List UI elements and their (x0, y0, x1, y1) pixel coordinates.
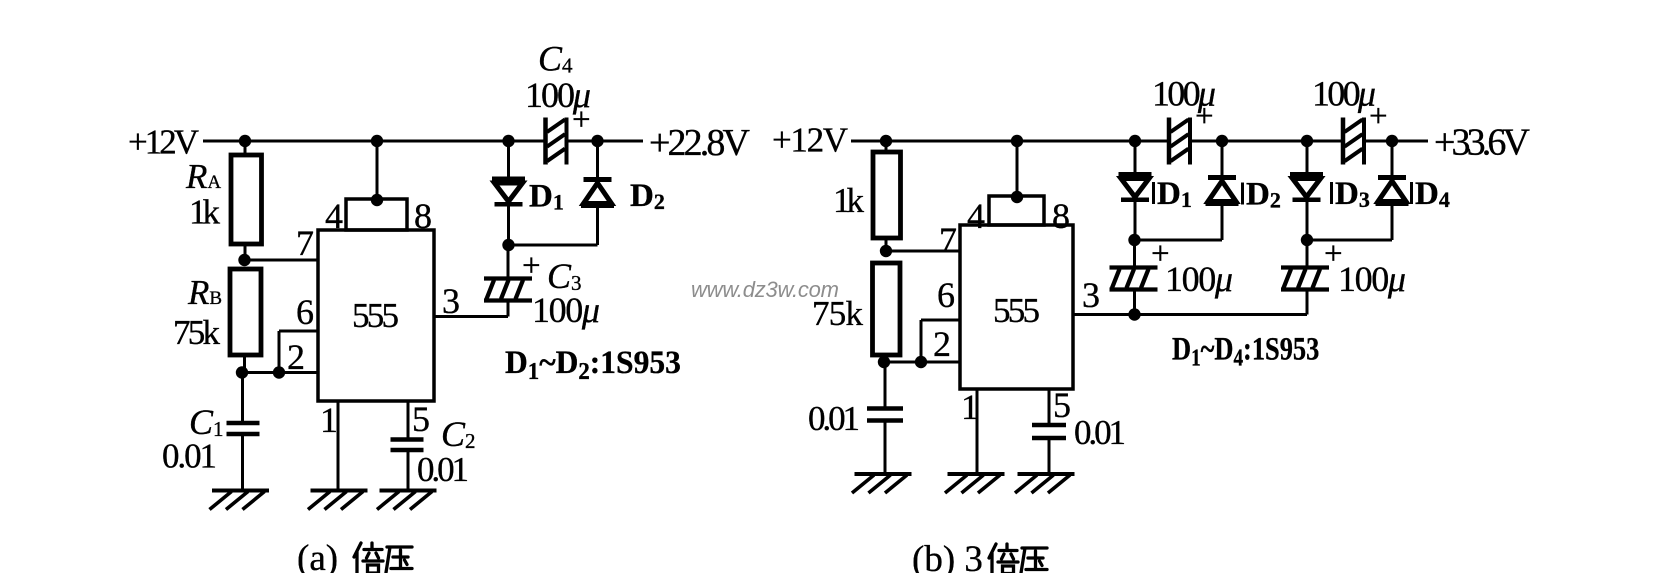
junction pin2/pin6 branch (273, 366, 285, 378)
capacitor 0.01 at pins2/6 (b) (867, 362, 903, 474)
svg-text:7: 7 (296, 223, 314, 263)
wire pin 1 to ground (b) (976, 389, 979, 474)
junction D3/C8 (b) (1301, 234, 1313, 246)
junction rail/RA (239, 135, 251, 147)
diode D1 (a) (492, 141, 525, 245)
svg-text:555: 555 (993, 291, 1040, 330)
wire pin 3 output (a) (434, 301, 508, 317)
label D3 (b) (1330, 176, 1370, 212)
svg-text:100μ: 100μ (1338, 259, 1406, 299)
diode D3 (b) (1290, 141, 1323, 240)
svg-text:(a): (a) (297, 538, 338, 573)
wire D1 cathode to D2 anode (b) (1135, 239, 1222, 242)
resistor 1k (b) (873, 141, 901, 251)
junction pin2/pin6 branch (b) (915, 356, 927, 368)
svg-text:555: 555 (352, 296, 399, 335)
svg-text:1: 1 (320, 400, 338, 440)
svg-text:100μ: 100μ (1165, 259, 1233, 299)
svg-text:+33.6V: +33.6V (1434, 122, 1531, 164)
wire rail to pins 4/8 (b) (1016, 141, 1019, 196)
diode D2 (b) (1206, 141, 1239, 240)
svg-text:+12V: +12V (772, 121, 848, 160)
resistor 75k (b) (873, 263, 901, 362)
capacitor C3 100u (pump cap a) (484, 279, 532, 301)
svg-text:8: 8 (414, 196, 432, 236)
wire pin 6 (279, 330, 318, 333)
diode D1 (b) (1119, 141, 1152, 240)
junction C7 right/D4 cathode/output (b) (1386, 135, 1398, 147)
wire C3 to D1/D2 junction (507, 245, 510, 278)
capacitor C8 100u (pump cap 2 b) (1281, 240, 1329, 315)
junction pin3/C6 (b) (1128, 308, 1140, 320)
junction C5 right/D2 cathode (b) (1216, 135, 1228, 147)
svg-text:+12V: +12V (128, 123, 199, 162)
wire pin 7 (b) (886, 250, 960, 253)
svg-text:75k: 75k (173, 313, 221, 352)
capacitor C4 100u (output cap a) (546, 118, 567, 165)
junction rail/pin8-4 (371, 135, 383, 147)
ground under pin 1 (b) (945, 474, 1005, 493)
junction rail/R1k (b) (880, 135, 892, 147)
wire pin 7 (245, 259, 319, 262)
ground under 0.01 cap (b) (852, 474, 912, 493)
junction RA/RB/pin7 (238, 254, 250, 266)
svg-text:+: + (522, 248, 541, 284)
junction C4 right/D2 cathode/output (591, 135, 603, 147)
svg-text:(b) 3: (b) 3 (912, 539, 983, 573)
timer IC 555 (b) (960, 196, 1073, 389)
svg-text:+22.8V: +22.8V (649, 122, 751, 164)
caption (b) tripler (912, 539, 1047, 573)
svg-text:3: 3 (1082, 275, 1100, 315)
capacitor C7 100u (top cap 2 b) (1343, 118, 1364, 165)
junction 75k/cap/pin2 (b) (878, 356, 890, 368)
wire pin6-pin2 link (278, 331, 281, 373)
svg-text:0.01: 0.01 (1074, 413, 1126, 452)
ground under pin1 (a) (308, 491, 368, 510)
svg-text:0.01: 0.01 (162, 437, 217, 476)
junction 1k/75k/pin7 (b) (880, 245, 892, 257)
resistor RA 1k (231, 141, 262, 260)
svg-text:100μ: 100μ (1152, 74, 1216, 114)
svg-text:5: 5 (412, 399, 430, 439)
svg-text:100μ: 100μ (525, 75, 591, 115)
svg-text:100μ: 100μ (532, 290, 600, 330)
ground under C1 (210, 491, 270, 510)
junction rail/pins4-8 (b) (1011, 135, 1023, 147)
junction rail/D1 anode, C4 left (502, 135, 514, 147)
svg-text:5: 5 (1053, 385, 1071, 425)
ground under pin 5 (b) (1015, 474, 1075, 493)
resistor RB 75k (230, 269, 261, 373)
wire D3 cathode to D4 anode (b) (1307, 239, 1392, 242)
capacitor C5 100u (top cap 1 b) (1169, 118, 1190, 165)
capacitor C1 0.01 (227, 373, 260, 491)
capacitor C6 100u (pump cap 1 b) (1110, 240, 1158, 315)
wire +12V supply rail (circuit a) (203, 140, 643, 143)
capacitor C2 0.01 (391, 440, 424, 491)
wire pin 3 output (b) (1073, 313, 1307, 316)
label D4 (b) (1410, 176, 1450, 212)
capacitor 0.01 at pin5 (b) (1032, 425, 1066, 474)
wire +12V supply rail (circuit b) (851, 140, 1428, 143)
wire pin 2 (b) (884, 361, 960, 364)
svg-text:7: 7 (939, 220, 957, 260)
svg-text:1: 1 (961, 387, 979, 427)
caption (a) doubler (297, 538, 412, 573)
ground under C2 (377, 491, 437, 510)
svg-text:2: 2 (287, 337, 305, 377)
svg-text:1k: 1k (833, 181, 865, 220)
wire pin 2 (242, 371, 318, 374)
svg-text:100μ: 100μ (1312, 74, 1376, 114)
wire pin 5 (a) (407, 401, 410, 438)
wire pin 1 to ground (a) (337, 401, 340, 490)
junction D1/C6 (b) (1128, 234, 1140, 246)
diode D2 (a) (581, 141, 614, 208)
svg-text:1k: 1k (189, 193, 221, 232)
svg-text:0.01: 0.01 (808, 399, 860, 438)
svg-text:0.01: 0.01 (417, 450, 469, 489)
junction RB/C1/pin2 (236, 366, 248, 378)
wire pin 6 (b) (921, 319, 960, 322)
junction rail/D3 anode (b) (1301, 135, 1313, 147)
junction pins4-8 top (b) (1011, 191, 1023, 203)
note D1~D4:1S953 (1172, 331, 1319, 371)
timer IC 555 (a) (318, 199, 434, 401)
svg-text:6: 6 (937, 275, 955, 315)
label D1 (b) (1152, 176, 1192, 212)
label D2 (b) (1241, 177, 1281, 213)
wire D1 cathode to D2 anode (509, 208, 598, 245)
svg-text:6: 6 (296, 292, 314, 332)
junction rail/D1 anode (b) (1129, 135, 1141, 147)
diode D4 (b) (1376, 141, 1409, 240)
svg-text:www.dz3w.com: www.dz3w.com (691, 277, 839, 302)
wire rail to pins 4/8 (376, 141, 379, 199)
svg-text:4: 4 (325, 196, 343, 236)
svg-text:2: 2 (933, 324, 951, 364)
wire pin6-pin2 link (b) (920, 320, 923, 362)
junction D1 cathode/C3/D2 anode (502, 239, 514, 251)
wire pin 5 (b) (1048, 389, 1051, 424)
svg-text:4: 4 (967, 196, 985, 236)
junction pins4-8 top (371, 194, 383, 206)
svg-text:8: 8 (1052, 196, 1070, 236)
note D1~D2:1S953 (505, 343, 681, 385)
